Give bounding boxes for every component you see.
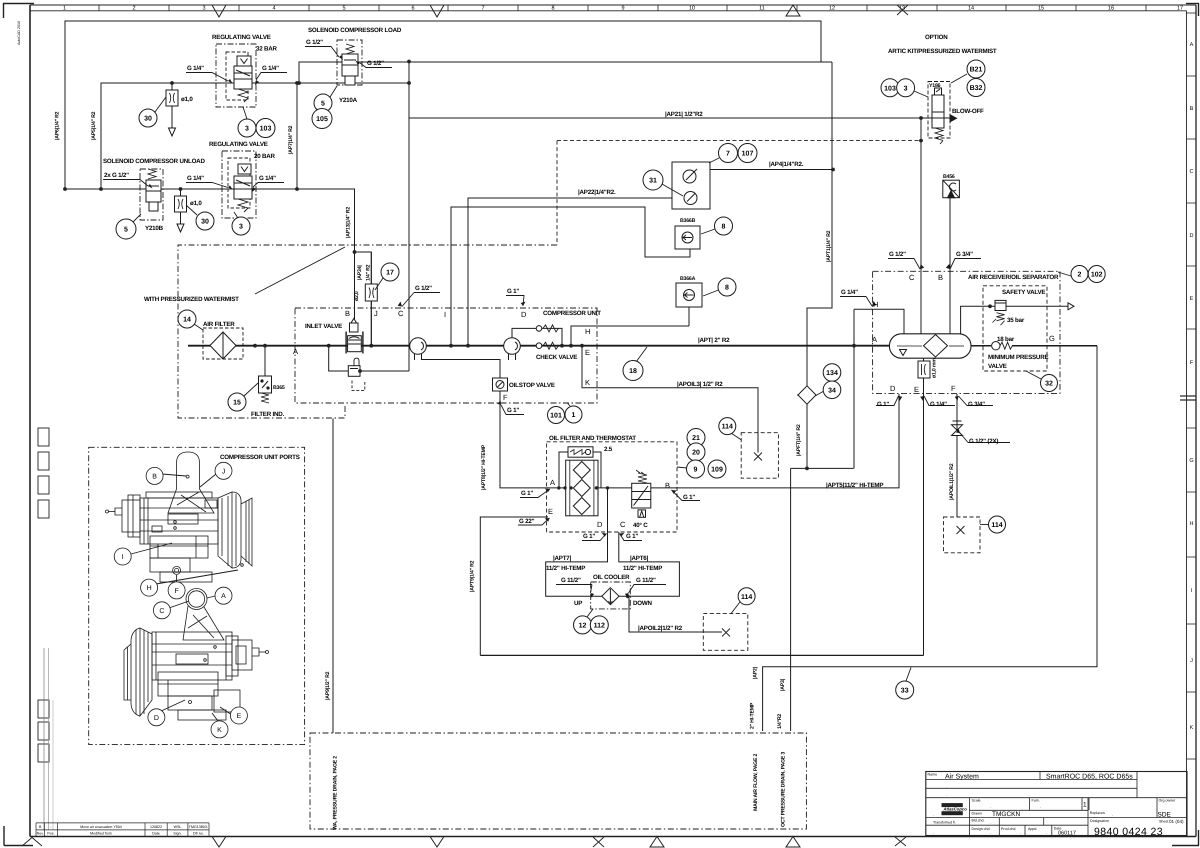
test point box 114 right: [944, 517, 981, 553]
wire blowoff vertical: [920, 118, 922, 334]
svg-text:Air System: Air System: [945, 773, 979, 781]
svg-text:|APT9|1/4" R2: |APT9|1/4" R2: [470, 560, 476, 592]
svg-text:AIR FILTER: AIR FILTER: [203, 321, 235, 328]
svg-text:Transfomed fr.: Transfomed fr.: [933, 821, 956, 825]
svg-text:Date: Date: [152, 832, 160, 836]
svg-text:Design chd.: Design chd.: [972, 827, 991, 831]
svg-text:A: A: [1190, 42, 1194, 48]
svg-text:G 1/2": G 1/2": [306, 39, 323, 46]
svg-text:120822: 120822: [150, 825, 162, 829]
revision table: [36, 823, 209, 837]
svg-text:|APOIL3| 1/2" R2: |APOIL3| 1/2" R2: [677, 381, 723, 388]
svg-text:B32: B32: [970, 85, 983, 92]
wire AP21: [409, 117, 921, 119]
small arrows on G leaders: [148, 55, 960, 598]
orifice o2,0 inlet: [365, 284, 377, 301]
wire thermostat B line APT5: [651, 394, 899, 488]
B366A sensor: [676, 283, 702, 307]
svg-text:B366B: B366B: [680, 218, 696, 224]
svg-text:Pos.: Pos.: [47, 832, 54, 836]
svg-text:ø1,0 mm: ø1,0 mm: [932, 358, 938, 378]
svg-text:30: 30: [144, 116, 152, 123]
upper machine small fittings: [152, 526, 162, 532]
svg-text:Designation: Designation: [1090, 819, 1109, 823]
svg-text:WA, PRESSURE DRAIN, PAGE 2: WA, PRESSURE DRAIN, PAGE 2: [333, 756, 339, 830]
svg-text:AIR RECEIVER/OIL SEPARATOR: AIR RECEIVER/OIL SEPARATOR: [968, 274, 1059, 281]
ruler ticks: [99, 5, 1146, 11]
svg-text:101: 101: [550, 413, 562, 420]
svg-text:MAIN AIR FLOW, PAGE 2: MAIN AIR FLOW, PAGE 2: [753, 754, 759, 811]
svg-text:UP: UP: [574, 600, 582, 607]
svg-text:G 1/2" (2X): G 1/2" (2X): [969, 438, 998, 445]
svg-text:A: A: [293, 347, 298, 356]
svg-text:G 1/4": G 1/4": [187, 175, 204, 182]
svg-text:5: 5: [124, 227, 128, 234]
svg-text:112: 112: [594, 622, 605, 629]
wire cooler down APT6: [619, 532, 680, 596]
wire load valve line: [299, 62, 832, 83]
page border right outer: [1195, 5, 1197, 837]
compressor stage 1: [410, 338, 427, 360]
upper machine: left motor: [122, 500, 140, 532]
svg-text:Sheet: Sheet: [1159, 820, 1168, 824]
svg-text:B21: B21: [970, 67, 983, 74]
svg-text:ARTIC KIT/PRESSURIZED WATERMIS: ARTIC KIT/PRESSURIZED WATERMIST: [888, 48, 997, 55]
wire inlet orifice: [370, 252, 372, 284]
svg-text:Bld.chd.: Bld.chd.: [972, 819, 985, 823]
svg-text:8: 8: [722, 224, 726, 231]
svg-text:9840 0424 23: 9840 0424 23: [1094, 826, 1163, 838]
svg-text:5: 5: [342, 6, 345, 12]
svg-text:E: E: [237, 713, 242, 720]
svg-text:.: .: [946, 784, 947, 789]
pilot box: [348, 366, 360, 377]
svg-text:DOWN: DOWN: [633, 600, 653, 607]
svg-text:|AP13|1/4" R2: |AP13|1/4" R2: [346, 207, 352, 238]
svg-text:G 1": G 1": [507, 407, 519, 414]
svg-text:G 1": G 1": [626, 533, 638, 540]
thermostat valve: [632, 470, 651, 517]
svg-text:F: F: [951, 384, 956, 393]
svg-text:2" HI-TEMP: 2" HI-TEMP: [749, 702, 755, 729]
safety valve: [993, 300, 1007, 325]
svg-text:G 1/2": G 1/2": [889, 251, 906, 258]
lower machine: top ring: [186, 589, 207, 610]
svg-text:.: .: [990, 804, 991, 809]
svg-text:G 1": G 1": [583, 533, 595, 540]
svg-text:G 1/4": G 1/4": [187, 65, 204, 72]
svg-text:G 11/2": G 11/2": [561, 577, 581, 584]
svg-text:|AP2|: |AP2|: [752, 666, 758, 679]
svg-text:C: C: [620, 520, 626, 529]
svg-text:G 1/2": G 1/2": [415, 285, 432, 292]
svg-text:Appd.: Appd.: [1028, 827, 1037, 831]
svg-text:3: 3: [202, 6, 205, 12]
wire safety valve outlet: [1006, 305, 1068, 307]
wire main air line: [188, 345, 889, 347]
svg-text:H: H: [1190, 521, 1194, 527]
wire x854 riser: [853, 309, 855, 468]
svg-text:21: 21: [692, 435, 700, 442]
svg-text:|APOIL2|1/2" R2: |APOIL2|1/2" R2: [638, 625, 683, 632]
check valve lower: [536, 342, 558, 349]
svg-text:B: B: [665, 481, 670, 490]
wire AP4: [710, 169, 833, 171]
wire riser x409: [408, 61, 410, 371]
svg-text:J: J: [374, 309, 378, 318]
air filter diamond: [210, 332, 236, 359]
svg-text:G 1": G 1": [521, 490, 533, 497]
port leader lines: [131, 474, 238, 721]
svg-text:E: E: [548, 507, 553, 516]
wire pilot to riser: [360, 370, 409, 372]
solenoid unload valve Y210B: [146, 169, 161, 211]
corner crop marks: [3, 3, 34, 5]
svg-text:OIL FILTER AND THERMOSTAT: OIL FILTER AND THERMOSTAT: [549, 435, 636, 442]
svg-text:I: I: [444, 310, 446, 319]
svg-text:.: .: [1046, 830, 1047, 835]
svg-text:01 (04): 01 (04): [1169, 819, 1184, 824]
upper machine: main body: [140, 498, 218, 544]
right band ticks: [1180, 13, 1196, 759]
svg-text:B456: B456: [943, 174, 955, 180]
svg-text:2.5: 2.5: [604, 446, 613, 453]
svg-text:SDE: SDE: [1158, 812, 1172, 819]
svg-text:3: 3: [239, 224, 243, 231]
svg-text:G 11/2": G 11/2": [636, 577, 656, 584]
svg-text:|AP9|1/2" R2: |AP9|1/2" R2: [325, 671, 331, 700]
svg-text:|APT8|1/2" HI-TEMP: |APT8|1/2" HI-TEMP: [481, 444, 487, 490]
air receiver tank: [889, 334, 971, 358]
svg-text:14: 14: [183, 317, 191, 324]
svg-text:.: .: [990, 830, 991, 835]
wire to B366B: [451, 207, 690, 346]
svg-text:3: 3: [904, 85, 908, 92]
page border top: [30, 4, 1196, 6]
svg-text:D: D: [154, 715, 159, 722]
svg-text:.: .: [1040, 804, 1041, 809]
leader lines: [133, 74, 1071, 681]
DASHED BOXES: [89, 40, 1060, 829]
svg-text:|APT6|: |APT6|: [630, 555, 649, 562]
lower machine: main body: [152, 632, 232, 680]
pressure gauge box: [672, 162, 710, 209]
watermist dashed boundary: [178, 245, 557, 418]
svg-text:.: .: [933, 812, 934, 817]
air filter box: [203, 328, 243, 359]
svg-text:9: 9: [694, 467, 698, 474]
solenoid unload valve box: [140, 169, 163, 220]
svg-text:11/2" HI-TEMP: 11/2" HI-TEMP: [546, 565, 585, 572]
svg-text:5: 5: [321, 101, 325, 108]
svg-text:TMG13803-: TMG13803-: [189, 825, 209, 829]
blowdown hand valve: [952, 421, 963, 436]
compressor unit box: [295, 308, 597, 403]
wire compressor oil line: [422, 360, 500, 379]
wire check valve upper branch: [512, 328, 562, 345]
solenoid load valve box: [337, 40, 362, 85]
svg-text:Org.owner: Org.owner: [1159, 799, 1177, 803]
svg-text:H: H: [585, 327, 590, 336]
wire oil drain line: [480, 654, 923, 656]
svg-text:12: 12: [579, 622, 587, 629]
wire filter bypass loop: [559, 452, 568, 488]
option dashed boundary: [557, 140, 921, 142]
svg-text:11: 11: [759, 6, 765, 12]
svg-text:Name: Name: [928, 773, 938, 777]
svg-text:|AP5|1/4" R2: |AP5|1/4" R2: [91, 111, 97, 140]
svg-text:G 3/4": G 3/4": [968, 401, 985, 408]
test point box 114 mid: [703, 614, 748, 651]
svg-text:I: I: [122, 554, 124, 561]
MACHINE DRAWINGS: [106, 452, 269, 738]
wire F blowdown: [956, 394, 958, 425]
wire inlet pilot loop: [329, 346, 349, 371]
wire lower rail y189: [65, 189, 355, 319]
svg-text:Scale: Scale: [972, 799, 981, 803]
svg-text:1: 1: [1083, 802, 1087, 809]
svg-text:B: B: [938, 273, 943, 282]
svg-text:Replaces: Replaces: [1090, 811, 1105, 815]
svg-text:H: H: [147, 585, 152, 592]
svg-text:.: .: [1020, 830, 1021, 835]
blow-off valve Y186: [921, 88, 957, 144]
upper machine: intake funnel: [177, 452, 200, 489]
oil filter block: [566, 447, 598, 516]
svg-text:OCT PRESSURE DRAIN, PAGE 3: OCT PRESSURE DRAIN, PAGE 3: [781, 752, 787, 827]
receiver orifice: [918, 361, 930, 378]
lower machine: bottom bracket: [168, 696, 212, 710]
balloon texts: [124, 67, 1103, 695]
oil filter thermostat box: [547, 442, 677, 532]
svg-text:31: 31: [649, 178, 657, 185]
svg-text:SmartROC D65, ROC D65s: SmartROC D65, ROC D65s: [1046, 774, 1133, 781]
svg-text:17: 17: [1177, 6, 1183, 12]
svg-text:G 1": G 1": [507, 288, 519, 295]
svg-text:OPTION: OPTION: [925, 34, 948, 41]
wire filter A line: [547, 487, 632, 489]
svg-text:G 1/4": G 1/4": [259, 175, 276, 182]
svg-text:Dfr no.: Dfr no.: [193, 832, 204, 836]
filter indicator B365: [259, 376, 272, 403]
svg-text:B: B: [152, 473, 157, 480]
wire down right side: [763, 346, 1097, 731]
check valve upper: [536, 325, 558, 332]
svg-text:134: 134: [826, 370, 838, 377]
TITLE BLOCK: [36, 772, 1187, 838]
svg-text:G 1": G 1": [877, 401, 889, 408]
svg-text:WSL: WSL: [174, 825, 182, 829]
svg-text:COMPRESSOR UNIT PORTS: COMPRESSOR UNIT PORTS: [220, 454, 300, 461]
svg-text:|AP6|1/4" R2: |AP6|1/4" R2: [55, 111, 61, 140]
ruler band bottom line: [30, 10, 1187, 12]
rotated labels: [17, 21, 955, 830]
balloon circles: white filled: [116, 60, 1105, 699]
svg-text:|APT1|1/4" R2: |APT1|1/4" R2: [826, 230, 832, 262]
svg-text:9: 9: [621, 6, 624, 12]
svg-text:6: 6: [411, 6, 414, 12]
svg-text:Fam.: Fam.: [1032, 799, 1040, 803]
svg-text:AutoCAD 2010: AutoCAD 2010: [17, 21, 21, 45]
svg-text:E: E: [914, 385, 919, 394]
svg-text:F: F: [174, 588, 178, 595]
left margin micro print: [43, 648, 45, 830]
svg-text:2: 2: [132, 6, 135, 12]
svg-text:109: 109: [711, 467, 723, 474]
svg-text:G 1/2": G 1/2": [367, 60, 384, 67]
wire top rail: [65, 21, 821, 189]
svg-text:.: .: [933, 830, 934, 835]
svg-text:H: H: [873, 300, 878, 309]
svg-text:INLET VALVE: INLET VALVE: [305, 323, 342, 330]
svg-text:REGULATING VALVE: REGULATING VALVE: [209, 141, 268, 148]
wire filter ind stub: [264, 346, 266, 376]
wire oilstop down to filter A line: [500, 391, 547, 488]
safety/min pressure valve box: [983, 286, 1047, 371]
wire main after receiver: [971, 345, 991, 347]
blow-off valve Y186 box: [928, 82, 950, 139]
wire H port to B366A: [571, 326, 689, 346]
svg-text:TMGCKN: TMGCKN: [992, 811, 1020, 818]
svg-text:.: .: [990, 820, 991, 825]
svg-text:060117: 060117: [1058, 831, 1076, 837]
svg-text:13: 13: [899, 6, 905, 12]
svg-text:Sign.: Sign.: [173, 832, 181, 836]
svg-text:|AP22|1/4"R2.: |AP22|1/4"R2.: [578, 189, 616, 196]
title block texts: [928, 773, 1185, 838]
wire orifice1 drop: [171, 83, 173, 90]
wire strainer down: [806, 403, 808, 469]
svg-text:ø2,0: ø2,0: [354, 291, 360, 301]
svg-text:Drawn: Drawn: [972, 812, 982, 816]
svg-text:107: 107: [742, 151, 754, 158]
svg-text:105: 105: [316, 116, 328, 123]
wire receiver bottom drain: [923, 358, 925, 361]
svg-text:C: C: [398, 309, 404, 318]
svg-text:B366A: B366A: [680, 276, 696, 282]
svg-text:SAFETY VALVE: SAFETY VALVE: [1002, 289, 1045, 296]
right band letters: [1189, 42, 1193, 731]
svg-text:Y186: Y186: [929, 83, 941, 89]
svg-text:7: 7: [481, 6, 484, 12]
pilot valve dashed stub: [352, 381, 365, 391]
svg-text:E: E: [1190, 296, 1194, 302]
oil cooler box: [591, 582, 631, 609]
svg-text:8: 8: [551, 6, 554, 12]
B366B sensor: [675, 226, 700, 249]
lower machine: right motor: [232, 640, 252, 670]
wire K port: [582, 346, 758, 453]
compressor ports box: [89, 447, 305, 744]
svg-text:35 bar: 35 bar: [1007, 317, 1025, 324]
svg-text:15: 15: [1038, 6, 1044, 12]
orifice o1,0 upper: [166, 90, 178, 106]
svg-text:Y210A: Y210A: [339, 97, 358, 104]
svg-text:ø1,0: ø1,0: [190, 200, 202, 207]
wire receiver H: [854, 309, 904, 334]
svg-text:12: 12: [829, 6, 835, 12]
atlas copco logo: [942, 804, 963, 807]
svg-text:G 1/4": G 1/4": [930, 401, 947, 408]
svg-text:CHECK VALVE: CHECK VALVE: [536, 354, 577, 361]
svg-text:3: 3: [245, 126, 249, 133]
wire AP7 riser: [296, 83, 298, 189]
svg-text:AtlasCopco: AtlasCopco: [943, 807, 968, 812]
left fold reference boxes: [38, 428, 49, 762]
svg-text:SOLENOID COMPRESSOR UNLOAD: SOLENOID COMPRESSOR UNLOAD: [103, 158, 205, 165]
minimum pressure valve: [992, 342, 1013, 350]
svg-text:A: A: [872, 335, 877, 344]
svg-text:C: C: [1190, 169, 1194, 175]
svg-text:Prod.chd.: Prod.chd.: [1001, 827, 1016, 831]
svg-text:D: D: [597, 520, 603, 529]
regulating valve 32bar box: [216, 44, 256, 107]
svg-text:G: G: [1189, 458, 1193, 464]
B456 sensor: [943, 180, 960, 198]
svg-text:A: A: [550, 478, 555, 487]
svg-text:Move air evacuation Y504: Move air evacuation Y504: [80, 825, 122, 829]
svg-text:.: .: [1112, 812, 1113, 817]
svg-text:J: J: [222, 468, 226, 475]
svg-text:18: 18: [629, 368, 637, 375]
wire APOIL2 drain: [628, 596, 722, 632]
svg-text:G 3/4": G 3/4": [956, 251, 973, 258]
scavenge strainer diamond: [798, 386, 816, 404]
svg-text:|AP7|1/4" R2: |AP7|1/4" R2: [288, 125, 294, 154]
svg-text:2: 2: [1078, 272, 1082, 279]
air receiver box: [873, 271, 1060, 393]
svg-text:40° C: 40° C: [633, 522, 648, 529]
svg-text:114: 114: [741, 594, 752, 601]
svg-text:4: 4: [272, 6, 275, 12]
svg-text:7: 7: [726, 151, 730, 158]
svg-text:1: 1: [572, 412, 576, 419]
right letter band line: [1186, 11, 1188, 837]
test cross top: [754, 453, 762, 461]
svg-text:COMPRESSOR UNIT: COMPRESSOR UNIT: [543, 310, 601, 317]
svg-text:F: F: [503, 393, 508, 402]
svg-text:D: D: [890, 384, 896, 393]
svg-text:1: 1: [63, 6, 66, 12]
svg-text:B: B: [345, 309, 350, 318]
lower machine: left bell housing: [140, 628, 152, 716]
svg-text:REGULATING VALVE: REGULATING VALVE: [212, 34, 271, 41]
svg-text:1/4"R2: 1/4"R2: [777, 714, 783, 729]
wire AP1 from load line: [807, 62, 832, 388]
wire safety valve branch: [961, 306, 995, 334]
svg-text:J: J: [1190, 658, 1193, 664]
svg-text:.: .: [946, 792, 947, 797]
wire to B366A: [688, 307, 690, 326]
oilstop valve: [493, 378, 508, 391]
wire AP34 jog: [355, 252, 372, 346]
svg-text:|AP34|: |AP34|: [357, 265, 363, 280]
wire AP9: [332, 419, 334, 734]
orifice o1,0 lower: [175, 196, 187, 212]
svg-text:G: G: [1049, 334, 1055, 343]
svg-text:Modified from: Modified from: [90, 832, 112, 836]
svg-text:D: D: [1190, 233, 1194, 239]
svg-text:34: 34: [828, 387, 836, 394]
svg-text:SOLENOID COMPRESSOR LOAD: SOLENOID COMPRESSOR LOAD: [308, 27, 402, 34]
svg-text:ø1,0: ø1,0: [181, 96, 193, 103]
svg-text:114: 114: [991, 522, 1002, 529]
svg-text:|APT| 2" R2: |APT| 2" R2: [698, 337, 730, 344]
upper machine: lower bracket: [150, 558, 190, 572]
wire B456 vertical: [949, 198, 951, 334]
svg-text:14: 14: [968, 6, 974, 12]
inlet valve: [346, 319, 363, 377]
